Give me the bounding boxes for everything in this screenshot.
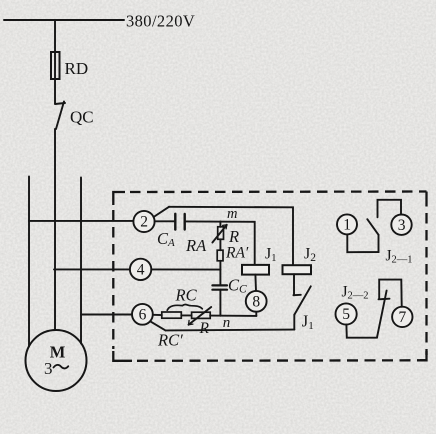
wire: to terminal 2 — [29, 220, 134, 222]
svg-text:m: m — [227, 206, 237, 222]
svg-text:5: 5 — [342, 306, 350, 323]
wire: capacitor CA to J1 coil branch — [185, 221, 255, 265]
motor M — [26, 330, 87, 391]
wire: slant from terminal 2 to node m wire — [154, 207, 169, 217]
resistor RC left box — [162, 312, 182, 318]
switch QC blade — [56, 102, 64, 130]
wire: RA' down to capacitor Cc — [219, 261, 221, 286]
svg-text:6: 6 — [139, 307, 147, 324]
svg-text:QC: QC — [70, 108, 94, 127]
wire: fuse to switch QC — [54, 79, 56, 104]
contact J2-1 blade — [367, 219, 378, 235]
wire: node m bus to J2 — [169, 207, 293, 265]
wire: right phase line — [80, 178, 82, 344]
wire: terminal 6 to resistor RC — [153, 314, 162, 316]
capacitor Cc bottom plate — [212, 289, 227, 291]
terminal 8 — [246, 291, 267, 312]
wire: RC to Cc node and terminal 8 — [210, 315, 256, 317]
contact J2-2 blade — [377, 291, 387, 338]
svg-text:RC′: RC′ — [157, 331, 183, 350]
rheostat arrow RC' — [189, 307, 212, 325]
terminal 4 — [130, 259, 151, 280]
svg-text:380/220V: 380/220V — [126, 12, 195, 31]
fuse RD — [51, 52, 60, 79]
wire: J2 coil down to contact J1 — [293, 274, 295, 295]
wire: between RC boxes — [181, 314, 191, 316]
wire: top bar of contact J2-2 — [379, 280, 402, 307]
wire: to terminal 6 — [81, 314, 132, 316]
resistor RC right box — [192, 312, 211, 318]
capacitor Cc top plate — [212, 284, 227, 286]
svg-text:RA′: RA′ — [225, 245, 249, 262]
wire: main phase down to fuse — [54, 20, 56, 52]
resistor R (upper, RA) — [218, 227, 224, 240]
svg-text:R: R — [228, 227, 239, 246]
svg-text:RD: RD — [65, 59, 89, 78]
wire: middle phase line — [54, 129, 56, 330]
terminal 1 — [337, 214, 357, 234]
wire: left phase line — [28, 177, 30, 347]
svg-text:1: 1 — [343, 217, 351, 234]
terminal 5 — [336, 303, 357, 324]
svg-text:RC: RC — [175, 286, 198, 305]
terminal 3 — [391, 215, 411, 235]
capacitor CA left plate — [174, 214, 176, 230]
wire: slant terminal 6 to node n — [151, 322, 166, 331]
capacitor CA right plate — [183, 214, 185, 230]
contact J1 blade — [294, 286, 310, 314]
contact J2-2 tick — [379, 298, 390, 301]
wire: Cc to bottom resistor bus — [219, 290, 221, 316]
svg-text:RA: RA — [185, 236, 207, 255]
rheostat arrow RA — [212, 225, 226, 243]
wire: to terminal 4 — [54, 268, 130, 270]
wire: contact J1 to node n — [293, 315, 295, 330]
wire: J1 coil to terminal 8 — [254, 275, 257, 291]
wire: branch at node above R — [219, 222, 221, 227]
brace over RC — [167, 305, 202, 311]
wire: contact J2-2 to terminal 5 — [346, 325, 377, 338]
relay coil J1 — [242, 265, 269, 275]
wire: terminal 1 to contact J2-1 — [347, 234, 378, 252]
resistor RA' — [217, 250, 223, 261]
svg-text:7: 7 — [399, 309, 407, 326]
relay coil J2 — [283, 265, 312, 274]
wire: top power bus — [4, 19, 124, 21]
contact J1 tick — [293, 294, 300, 296]
svg-text:3: 3 — [44, 359, 53, 378]
wire: between R and RA' — [219, 239, 221, 250]
svg-text:8: 8 — [252, 294, 260, 311]
switch QC tick — [55, 103, 65, 104]
terminal 7 — [392, 307, 412, 327]
terminal 2 — [133, 211, 154, 232]
wire: terminal 2 to capacitor CA — [155, 220, 175, 222]
svg-text:2: 2 — [140, 214, 148, 231]
svg-text:4: 4 — [137, 262, 145, 279]
wire: node n bus — [166, 329, 295, 332]
fuse RD body wire — [54, 52, 56, 79]
svg-text:3: 3 — [398, 217, 406, 234]
wire: stub terminal 8 bottom — [255, 312, 257, 316]
wire: hook above terminal 3 — [378, 200, 402, 218]
svg-text:n: n — [223, 315, 231, 331]
dashed enclosure box — [113, 192, 426, 361]
svg-text:R: R — [199, 320, 210, 337]
terminal 6 — [132, 304, 153, 325]
tilde of 3~ — [54, 365, 69, 369]
wire: terminal 4 to R branch — [151, 268, 220, 270]
